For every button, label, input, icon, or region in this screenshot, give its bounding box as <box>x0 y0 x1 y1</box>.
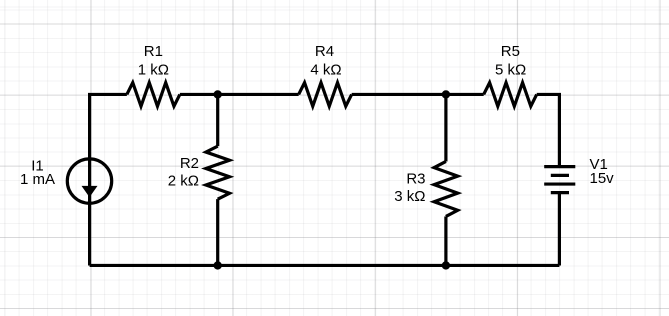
svg-text:15v: 15v <box>590 170 615 187</box>
svg-text:3 kΩ: 3 kΩ <box>394 188 425 205</box>
current source I1 circle <box>67 159 111 203</box>
svg-text:5 kΩ: 5 kΩ <box>495 62 526 79</box>
resistor R2 <box>206 146 230 199</box>
svg-text:2 kΩ: 2 kΩ <box>168 172 199 189</box>
battery V1 plate short upper <box>551 174 569 177</box>
wire R2 to bottom <box>216 199 219 265</box>
svg-text:4 kΩ: 4 kΩ <box>310 62 341 79</box>
svg-text:R4: R4 <box>315 43 334 60</box>
wire bottom <box>90 264 560 267</box>
wire R4 to node B <box>352 93 484 96</box>
wire left below I1 <box>88 157 91 265</box>
current source I1 arrow <box>82 186 98 197</box>
svg-text:1 kΩ: 1 kΩ <box>138 62 169 79</box>
wire R1 to node A <box>180 93 299 96</box>
node A bottom dot <box>214 261 222 269</box>
battery V1 plate long lower <box>544 182 575 185</box>
svg-text:R3: R3 <box>406 170 425 187</box>
battery V1 plate long top <box>544 165 575 168</box>
svg-text:1 mA: 1 mA <box>20 171 55 188</box>
svg-text:R1: R1 <box>144 43 163 60</box>
wire top-left stub <box>90 94 127 157</box>
node B dot <box>442 90 450 98</box>
resistor R5 <box>484 83 537 107</box>
wire R3 to bottom <box>444 216 447 265</box>
wire node A to R2 <box>216 94 219 146</box>
wire R5 to V1 top <box>537 94 560 166</box>
resistor R3 <box>434 161 458 216</box>
wire node B to R3 <box>444 94 447 161</box>
battery V1 plate short bottom <box>551 191 569 194</box>
resistor R4 <box>299 83 352 107</box>
node A dot <box>214 90 222 98</box>
wire V1 bottom <box>558 193 561 266</box>
resistor R1 <box>127 83 180 107</box>
node B bottom dot <box>442 261 450 269</box>
svg-text:R2: R2 <box>180 155 199 172</box>
svg-text:R5: R5 <box>501 43 520 60</box>
